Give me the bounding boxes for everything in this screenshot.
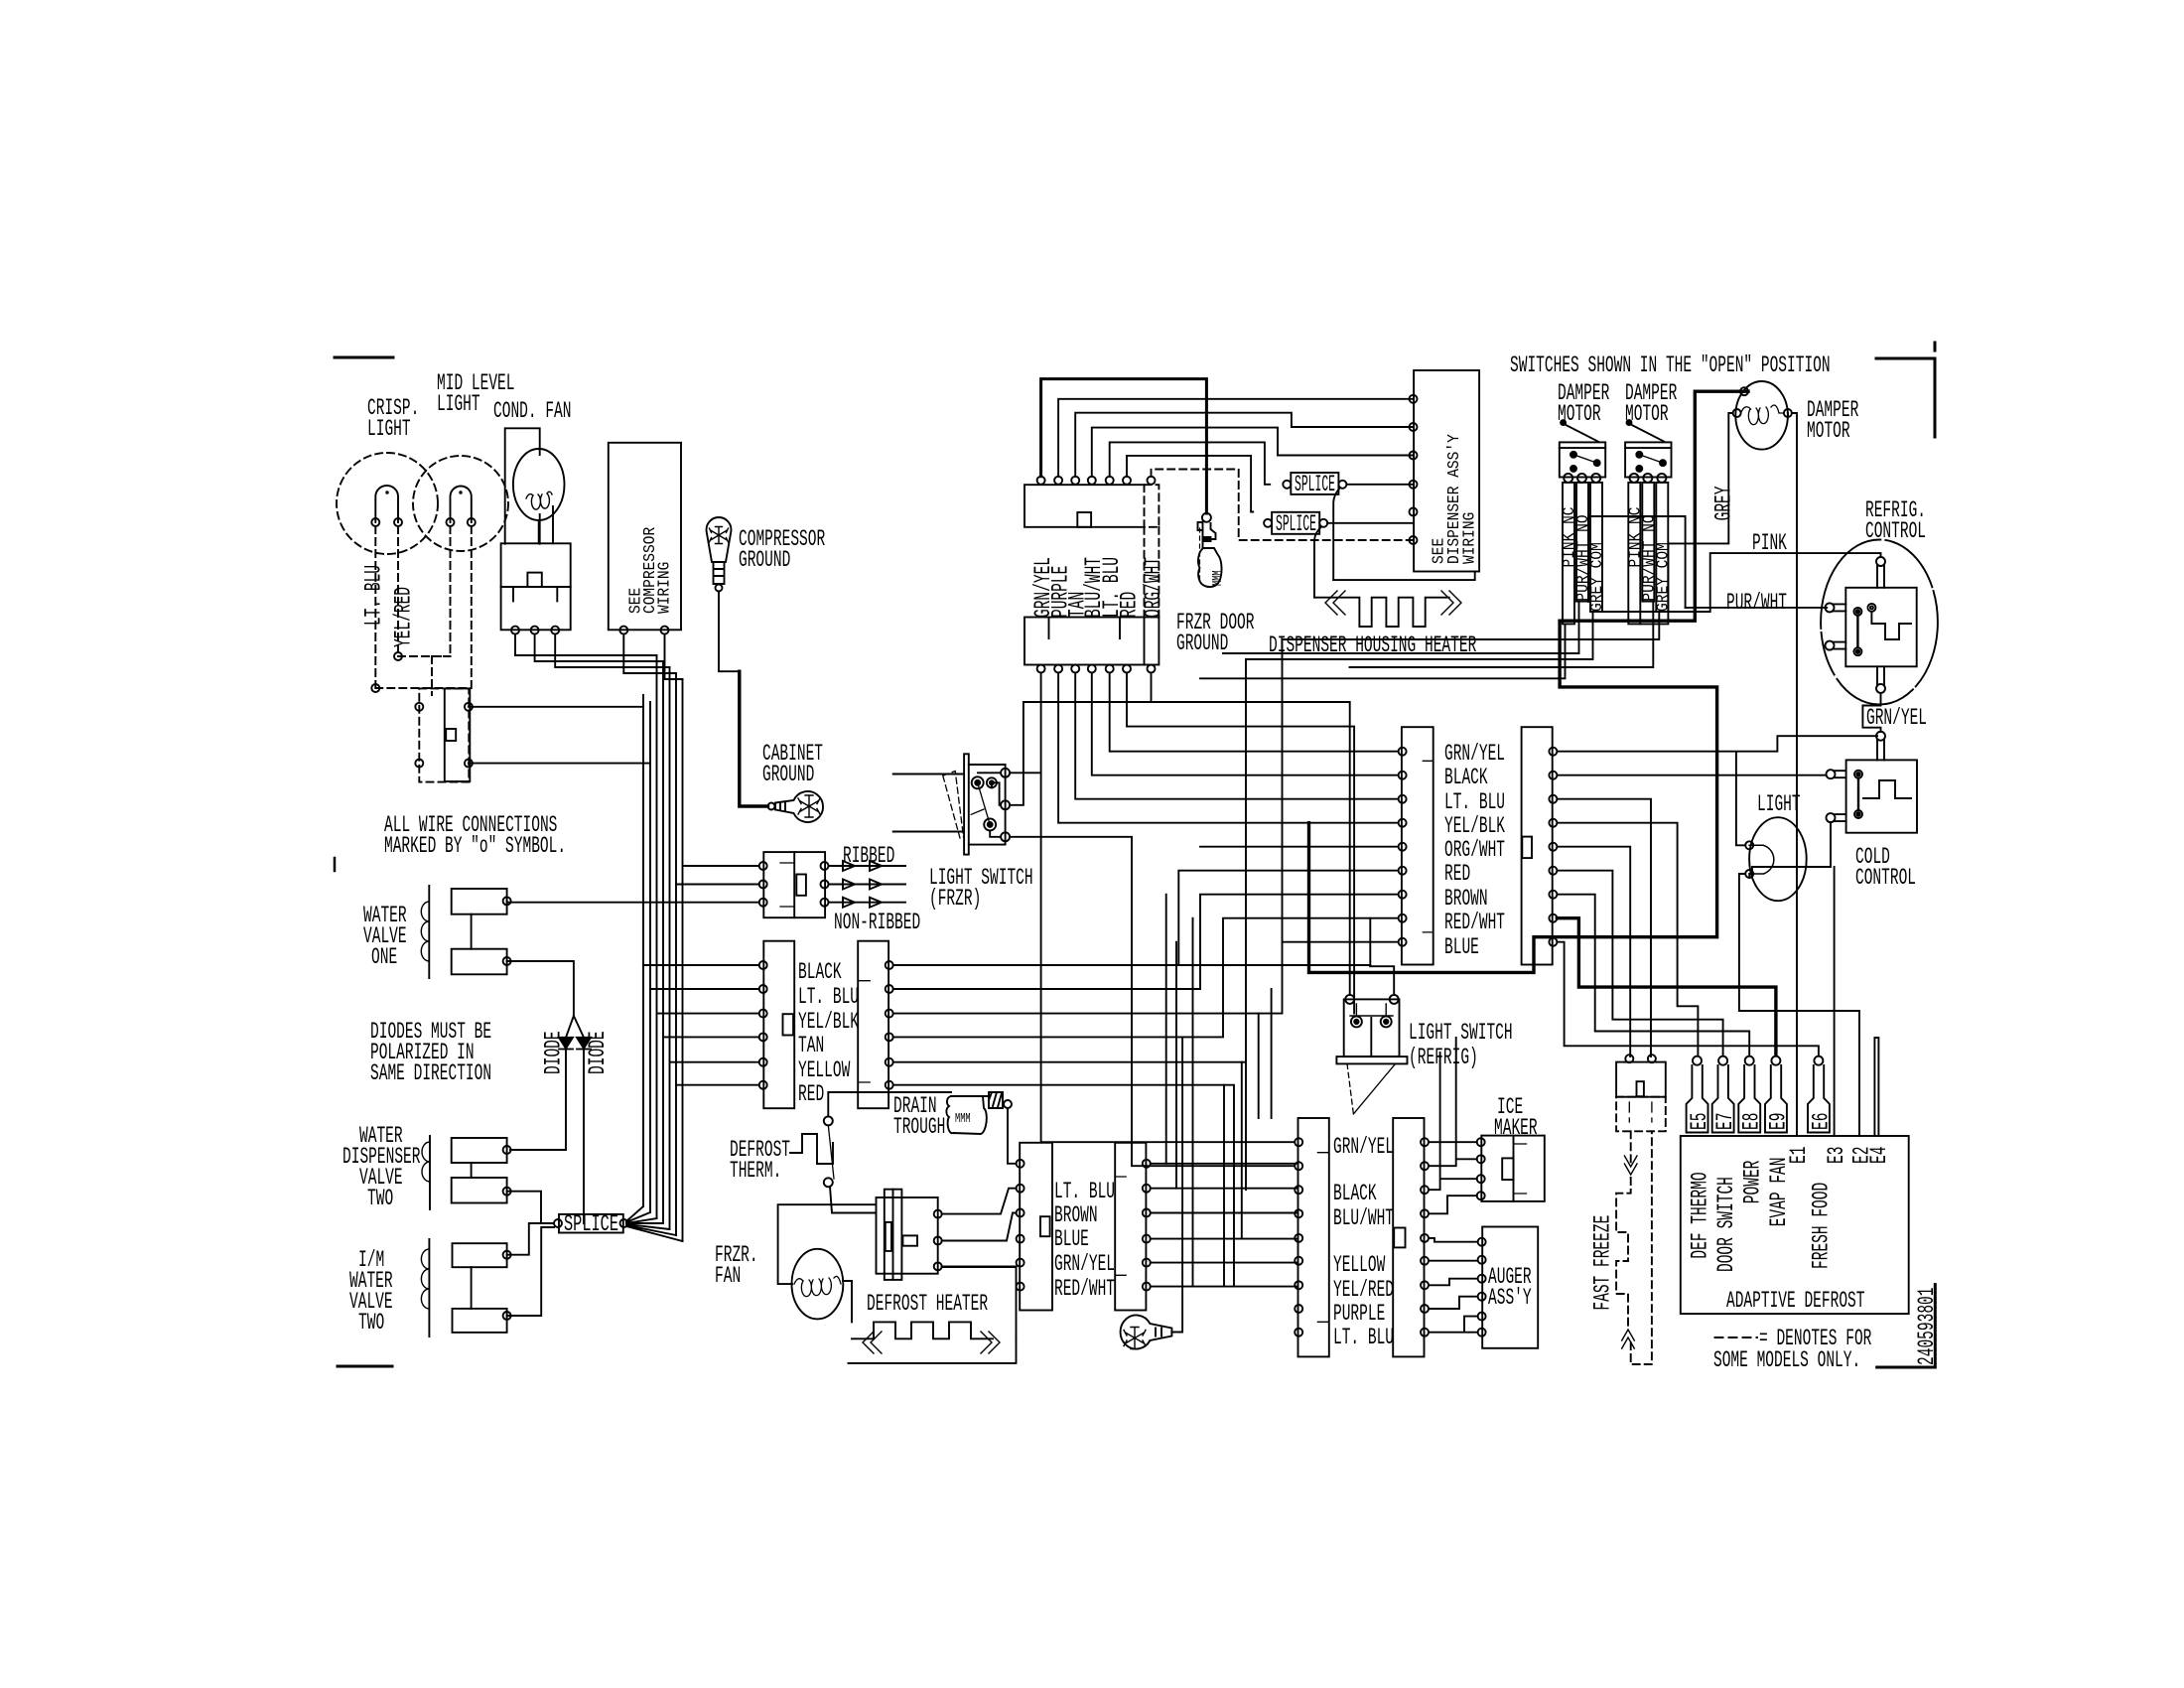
water valve one	[428, 886, 430, 978]
wire I/M valve bottom	[507, 1227, 554, 1316]
wires compressor terminals to bundle	[623, 634, 682, 679]
svg-text:E3: E3	[1824, 1147, 1849, 1164]
svg-text:POWER: POWER	[1740, 1160, 1766, 1203]
pin column PINK NC 2	[1628, 483, 1640, 625]
drain trough symbol	[951, 1092, 1003, 1108]
svg-text:BLUE: BLUE	[1054, 1226, 1089, 1252]
svg-text:BROWN: BROWN	[1054, 1202, 1098, 1228]
water dispenser valve two	[429, 1136, 431, 1209]
drain connector pair left box	[1020, 1143, 1052, 1311]
svg-text:LT. BLU: LT. BLU	[798, 984, 859, 1010]
wire 6pin t4 to 9pin row8	[893, 918, 1399, 1038]
drain connector pair right box	[1115, 1143, 1146, 1311]
wire PINK vertical	[1788, 413, 1797, 1136]
terminals mid lamp	[447, 518, 455, 526]
wire LT. BLU dashed	[374, 526, 376, 688]
spade terminal E8	[1738, 1065, 1760, 1133]
svg-text:MARKED BY "o" SYMBOL.: MARKED BY "o" SYMBOL.	[384, 833, 566, 859]
wire damper col3	[1246, 612, 1593, 1062]
terminals I/M valve	[503, 1251, 511, 1259]
compressor ground symbol	[707, 517, 732, 562]
terminals light switch FRZR	[1001, 769, 1010, 777]
registration mark top-left	[335, 356, 393, 359]
wire t4 to 9pin row2	[1092, 673, 1399, 775]
terminals drain connector left	[1017, 1160, 1024, 1168]
light bulb	[1749, 817, 1807, 901]
wire dispenser valve to splice	[507, 1192, 554, 1223]
wire RED to splice	[1127, 456, 1253, 512]
svg-text:YELLOW: YELLOW	[1333, 1252, 1385, 1278]
wire row9 to E6	[1557, 942, 1819, 1055]
terminals ice maker	[1477, 1138, 1485, 1146]
top connector upper box	[1024, 485, 1145, 527]
terminals compressor box	[619, 627, 627, 634]
svg-text:SWITCHES SHOWN IN THE "OPEN" P: SWITCHES SHOWN IN THE "OPEN" POSITION	[1510, 352, 1831, 378]
pin column PUR/WHT NO 2	[1642, 483, 1654, 602]
wire damper col1	[1200, 624, 1566, 678]
refrig control box	[1845, 588, 1916, 667]
svg-text:MOTOR: MOTOR	[1807, 418, 1850, 444]
splice box upper	[1291, 473, 1338, 494]
svg-text:YEL/RED: YEL/RED	[391, 587, 417, 647]
wire switch FRZR mid corridor	[1010, 702, 1350, 995]
wire mid lamp right dashed	[375, 526, 472, 688]
svg-text:ASS'Y: ASS'Y	[1488, 1285, 1532, 1311]
wire BLU/WHT to dispenser	[1092, 428, 1414, 477]
svg-text:WIRING: WIRING	[656, 562, 675, 614]
wire GRN/YEL trunk t1	[1041, 673, 1294, 1143]
bottom 9pin connector right box	[1393, 1118, 1424, 1356]
svg-text:RED/WHT: RED/WHT	[1444, 910, 1505, 935]
terminals 6pin right	[886, 961, 893, 969]
svg-text:WIRING: WIRING	[1461, 512, 1480, 564]
svg-text:YEL/BLK: YEL/BLK	[798, 1009, 859, 1035]
terminals crisp lamp	[371, 518, 379, 526]
svg-text:EVAP FAN: EVAP FAN	[1766, 1158, 1792, 1227]
wire defrost therm bottom	[830, 1187, 877, 1213]
terminals relay	[511, 627, 519, 634]
wire to switch FRZR left	[893, 774, 964, 832]
wire E2 riser	[1739, 874, 1859, 1136]
wire 6pin t5 corridor	[893, 1062, 1246, 1191]
wire I/M valve top to splice	[507, 1223, 554, 1255]
wire drain trough to connector	[1008, 1109, 1017, 1164]
light switch FRZR contacts	[972, 776, 984, 788]
right 9pin connector right box	[1522, 727, 1553, 964]
wire row2 to cold control	[1557, 774, 1826, 776]
cold control left stems	[1834, 771, 1845, 821]
wire row7 to E8	[1557, 895, 1749, 1055]
svg-text:BLACK: BLACK	[798, 959, 842, 985]
wire center riser b	[1192, 918, 1194, 1287]
note DENOTES FOR SOME MODELS ONLY	[1715, 1336, 1758, 1338]
frzr door ground symbol	[1202, 513, 1211, 522]
svg-text:MMM: MMM	[1210, 570, 1226, 586]
light switch FRZR wedge dashed	[943, 772, 964, 839]
wire valve one top long	[507, 901, 759, 902]
svg-text:ONE: ONE	[371, 944, 397, 970]
wire row3 to fast freeze	[1557, 799, 1651, 1056]
refrig control left stems	[1833, 604, 1845, 648]
wire damper col6	[1283, 612, 1660, 942]
wire ORG/WHT dashed	[1152, 470, 1415, 541]
wire PINK to refrig control	[1797, 553, 1881, 557]
terminals auger	[1478, 1238, 1486, 1246]
wire cold control to light	[1752, 822, 1831, 874]
wire TAN to dispenser	[1075, 413, 1414, 477]
wires light switch FRZR internal	[978, 773, 1001, 837]
lamp MID LEVEL LIGHT	[413, 456, 508, 551]
diode D2	[577, 1038, 591, 1049]
svg-text:E4: E4	[1866, 1147, 1892, 1164]
svg-text:ORG/WHT: ORG/WHT	[1444, 837, 1505, 863]
svg-text:GRN/YEL: GRN/YEL	[1054, 1251, 1115, 1277]
terminals 6pin left	[759, 961, 767, 969]
wire damper col2	[1223, 602, 1579, 653]
cond fan motor	[513, 449, 565, 520]
wire E3 riser	[1834, 867, 1836, 1136]
svg-text:BLUE: BLUE	[1444, 934, 1479, 960]
pin column PUR/WHT NO 1	[1576, 483, 1588, 602]
svg-text:DOOR SWITCH: DOOR SWITCH	[1713, 1177, 1739, 1272]
wire bundle left verticals	[643, 655, 683, 1241]
fast freeze connector dashed box	[1616, 1097, 1666, 1132]
svg-text:RED: RED	[1117, 592, 1143, 618]
svg-text:(REFRIG): (REFRIG)	[1409, 1045, 1478, 1070]
wires bundle into left connector	[643, 965, 759, 1085]
svg-text:MAKER: MAKER	[1494, 1115, 1538, 1141]
wire diode D1 to dispenser valve	[510, 1051, 566, 1150]
terminals heater assembly	[934, 1210, 942, 1218]
defrost heater element	[852, 1322, 993, 1338]
wire damper col5	[1350, 602, 1654, 667]
wire t5 to 9pin row1	[1110, 673, 1399, 752]
terminals damper switch 1	[1564, 474, 1572, 483]
svg-text:GREY COM: GREY COM	[1588, 542, 1607, 612]
box SEE COMPRESSOR WIRING	[609, 443, 681, 631]
svg-text:RED: RED	[1444, 861, 1470, 887]
wire 6pin t6 corridor	[893, 1085, 1234, 1286]
wire frzr fan left	[778, 1204, 877, 1284]
wire switch refrig riser 2	[1370, 918, 1394, 995]
wires crisp switch to bundle	[469, 707, 650, 764]
terminals top connector lower	[1037, 665, 1045, 673]
pin column PINK NC 1	[1563, 483, 1574, 625]
wire PURPLE to dispenser	[1058, 399, 1414, 477]
cold control cam profile	[1863, 780, 1911, 798]
svg-text:DEFROST HEATER: DEFROST HEATER	[867, 1291, 988, 1317]
wire t6 corridor	[1127, 673, 1354, 1014]
cold control contacts	[1854, 771, 1862, 778]
ice maker box	[1481, 1136, 1545, 1201]
registration mark bottom-left	[338, 1365, 392, 1368]
wire splice lower to heater lead	[1314, 527, 1321, 598]
wires bundle to ribbed connector	[676, 866, 759, 885]
terminals bottom 9pin left box	[1295, 1138, 1302, 1146]
connector box 6pin right	[858, 941, 888, 1108]
svg-text:LIGHT SWITCH: LIGHT SWITCH	[1409, 1020, 1513, 1046]
svg-text:SPLICE: SPLICE	[1276, 511, 1316, 537]
wire evap ground up	[1171, 1038, 1182, 1333]
svg-text:LT. BLU: LT. BLU	[361, 565, 387, 626]
svg-text:TROUGH: TROUGH	[893, 1114, 945, 1140]
damper motor	[1735, 381, 1788, 450]
svg-text:DIODE: DIODE	[541, 1031, 567, 1074]
wire dashed into switch	[432, 656, 451, 695]
terminals crisp switch	[415, 703, 423, 711]
wires heater assembly to drain connector	[942, 1189, 1017, 1214]
svg-text:DEF THERMO: DEF THERMO	[1688, 1172, 1713, 1258]
cabinet ground symbol	[775, 791, 823, 822]
wires relay terminals to bundle	[515, 634, 670, 667]
wire valve one to diodes	[507, 961, 584, 1038]
svg-text:GREY COM: GREY COM	[1654, 542, 1673, 612]
spade terminal E9	[1765, 1065, 1787, 1133]
svg-text:LT. BLU: LT. BLU	[1444, 789, 1505, 815]
wire splice lower to dispenser	[1327, 522, 1414, 524]
svg-text:LIGHT: LIGHT	[437, 391, 480, 417]
wires drain connector to bottom connector	[1151, 1164, 1297, 1287]
svg-text:240593801: 240593801	[1914, 1288, 1940, 1366]
svg-text:YELLOW: YELLOW	[798, 1057, 850, 1083]
damper switch 1	[1560, 442, 1605, 477]
svg-text:RED: RED	[798, 1081, 824, 1107]
wire row6 to E7	[1557, 871, 1722, 1055]
wire row5 to fast freeze	[1557, 847, 1630, 1056]
svg-text:E8: E8	[1739, 1113, 1765, 1130]
svg-text:RIBBED: RIBBED	[843, 843, 894, 869]
svg-text:SPLICE: SPLICE	[564, 1211, 618, 1237]
wire 6pin t2 to 9pin row7	[893, 895, 1399, 989]
wire center riser c	[1175, 942, 1177, 1189]
svg-text:DIODE: DIODE	[585, 1031, 611, 1074]
refrig control cam profile	[1871, 612, 1911, 639]
svg-text:FAN: FAN	[715, 1263, 741, 1289]
refrig control top stem	[1877, 565, 1884, 588]
auger assembly box	[1482, 1227, 1538, 1348]
wire splice upper to dispenser	[1346, 484, 1414, 486]
light switch (crisp/mid) dashed body	[419, 688, 469, 781]
ribbed connector box	[763, 852, 825, 917]
wires bottom connector to auger	[1429, 1238, 1478, 1242]
registration tick left	[334, 858, 337, 871]
svg-text:(FRZR): (FRZR)	[929, 886, 981, 912]
terminals dispenser valve two	[503, 1146, 511, 1154]
svg-text:E7: E7	[1712, 1113, 1738, 1130]
junction node	[371, 684, 379, 692]
svg-text:GREY: GREY	[1711, 486, 1737, 520]
wire GREY	[1640, 413, 1732, 624]
wire t3 to 9pin row3	[1075, 673, 1398, 799]
terminals ribbed connector	[759, 862, 767, 870]
lamp CRISP LIGHT	[337, 453, 438, 554]
light switch FRZR plate	[964, 754, 969, 854]
wire switch FRZR top link	[1010, 772, 1041, 774]
svg-text:YEL/BLK: YEL/BLK	[1444, 813, 1505, 839]
wire E4 riser	[1874, 1038, 1878, 1136]
spade terminal E6	[1808, 1065, 1830, 1133]
terminals drain connector right	[1143, 1160, 1151, 1168]
splice box left	[559, 1214, 623, 1233]
damper switch 2	[1625, 442, 1671, 477]
wire PUR/WHT riser	[1588, 516, 1686, 608]
wire ORG/WHT row5 feed	[1200, 846, 1399, 848]
svg-text:LT. BLU: LT. BLU	[1333, 1325, 1394, 1350]
wire frzr fan right	[843, 1281, 852, 1322]
light switch REFRIG	[1344, 999, 1400, 1056]
pin column GREY COM 1	[1590, 483, 1602, 612]
wire thick main	[1309, 391, 1749, 972]
cold control box	[1846, 760, 1917, 832]
connector box 6pin left	[763, 941, 794, 1108]
spade terminal E7	[1712, 1065, 1734, 1133]
right 9pin connector left box	[1402, 727, 1433, 964]
svg-text:BLACK: BLACK	[1444, 765, 1488, 790]
svg-text:GRN/YEL: GRN/YEL	[1333, 1134, 1394, 1160]
svg-text:SOME MODELS ONLY.: SOME MODELS ONLY.	[1713, 1347, 1860, 1373]
terminals damper motor	[1740, 387, 1748, 395]
svg-text:PURPLE: PURPLE	[1333, 1301, 1385, 1327]
wire GRN/YEL refrig to cold control	[1862, 693, 1880, 732]
wire PINK horizontal	[1602, 553, 1797, 612]
terminals bottom 9pin right box	[1421, 1138, 1429, 1146]
dispenser housing heater	[1333, 572, 1475, 581]
svg-text:FAST FREEZE: FAST FREEZE	[1590, 1215, 1616, 1311]
wire switch FRZR bottom corridor	[1010, 837, 1294, 1166]
wire 6pin t1 to 9pin row6	[893, 871, 1399, 967]
svg-text:E9: E9	[1766, 1113, 1792, 1130]
svg-text:SPLICE: SPLICE	[1295, 472, 1335, 497]
bottom 9pin connector left box	[1298, 1118, 1329, 1356]
defrost thermostat	[790, 1134, 833, 1164]
svg-text:BROWN: BROWN	[1444, 886, 1488, 912]
svg-text:LIGHT: LIGHT	[1757, 791, 1801, 817]
wire row4 to E5	[1557, 823, 1698, 1055]
evap fan ground symbol	[1121, 1316, 1172, 1349]
I/M water valve two	[428, 1239, 430, 1336]
svg-text:GRN/YEL: GRN/YEL	[1444, 741, 1505, 767]
wire 6pin t3 to 9pin row9	[893, 942, 1399, 1014]
pin column GREY COM 2	[1656, 483, 1668, 612]
box SEE DISPENSER ASS'Y WIRING	[1414, 370, 1479, 572]
wire diode D2 down	[583, 1051, 585, 1223]
svg-text:GROUND: GROUND	[762, 762, 814, 787]
defrost heater cutout assembly	[877, 1197, 938, 1274]
wire GRN/YEL row1 to light and refrig	[1557, 736, 1877, 845]
freezer fan motor	[792, 1249, 844, 1320]
wire row8 to E9 thick	[1557, 918, 1776, 1055]
svg-text:TAN: TAN	[798, 1033, 824, 1058]
terminals dispenser box	[1410, 395, 1418, 403]
svg-text:TWO: TWO	[367, 1186, 393, 1211]
ribbed arrows	[829, 861, 906, 871]
svg-text:BLU/WHT: BLU/WHT	[1333, 1205, 1394, 1231]
svg-text:E1: E1	[1786, 1147, 1812, 1164]
wire PUR/WHT horizontal	[1686, 607, 1828, 609]
terminals water valve one	[503, 897, 511, 905]
wire fast freeze dashed loop	[1616, 1131, 1652, 1364]
terminals light	[1745, 841, 1753, 849]
dashed column ORG/WHT	[1145, 527, 1160, 618]
svg-text:E5: E5	[1687, 1113, 1712, 1130]
top connector lower box	[1024, 618, 1159, 665]
wire center riser a	[1165, 895, 1167, 1164]
refrig control ellipse	[1821, 540, 1938, 705]
splice box lower	[1272, 512, 1319, 534]
wire mid lamp left dashed	[398, 526, 451, 656]
wire compressor ground to cabinet ground	[719, 592, 740, 672]
svg-text:PINK: PINK	[1752, 530, 1787, 556]
wire bottom risers	[1224, 989, 1272, 1285]
svg-text:GROUND: GROUND	[1176, 631, 1228, 656]
refrig control contacts	[1853, 608, 1861, 616]
terminals right 9pin left box	[1399, 748, 1407, 756]
svg-text:PUR/WHT: PUR/WHT	[1726, 590, 1787, 616]
svg-text:DISPENSER HOUSING HEATER: DISPENSER HOUSING HEATER	[1269, 633, 1476, 658]
terminals damper switch 2	[1630, 474, 1639, 483]
svg-text:GROUND: GROUND	[739, 547, 790, 573]
spade terminal E5	[1687, 1065, 1708, 1133]
registration mark top-right	[1876, 343, 1935, 437]
svg-text:CONTROL: CONTROL	[1855, 865, 1916, 891]
registration mark bottom-right	[1877, 1285, 1936, 1367]
svg-text:BLACK: BLACK	[1333, 1181, 1377, 1206]
cond fan duct	[505, 428, 540, 543]
splice right fan wires	[626, 1206, 683, 1241]
refrig control bottom stem	[1877, 666, 1884, 685]
svg-text:THERM.: THERM.	[730, 1158, 781, 1184]
svg-text:NON-RIBBED: NON-RIBBED	[834, 910, 920, 935]
wire GRN/YEL to door ground	[1041, 379, 1207, 513]
svg-text:YEL/RED: YEL/RED	[1333, 1277, 1394, 1303]
wire LT. BLU to splice	[1110, 442, 1271, 484]
terminals splice left	[554, 1219, 562, 1227]
terminals top connector upper	[1037, 477, 1045, 485]
wire splice upper to heater lead	[1333, 488, 1340, 580]
svg-text:LT. BLU: LT. BLU	[1054, 1179, 1115, 1204]
junction node	[394, 652, 402, 660]
fast freeze connector solid box	[1616, 1062, 1666, 1097]
svg-text:COND. FAN: COND. FAN	[493, 398, 572, 424]
adaptive defrost board	[1681, 1136, 1909, 1314]
wire t2 to 9pin row4	[1058, 673, 1399, 823]
diode D1	[559, 1038, 573, 1049]
svg-text:SAME DIRECTION: SAME DIRECTION	[370, 1060, 491, 1086]
wire YEL/RED dashed	[397, 526, 399, 656]
svg-text:MMM: MMM	[955, 1111, 971, 1127]
wire t7 corridor	[1151, 673, 1153, 703]
svg-text:TWO: TWO	[358, 1310, 384, 1336]
svg-text:FRESH FOOD: FRESH FOOD	[1809, 1183, 1835, 1269]
cond fan relay box	[501, 543, 571, 630]
light switch (crisp/mid) solid body	[445, 688, 471, 781]
wire defrost therm top	[828, 1092, 951, 1116]
svg-text:E6: E6	[1809, 1113, 1835, 1130]
svg-text:LIGHT: LIGHT	[367, 416, 411, 442]
wires bottom connector to ice maker	[1429, 1141, 1477, 1143]
svg-text:ADAPTIVE DEFROST: ADAPTIVE DEFROST	[1726, 1288, 1865, 1314]
terminals right 9pin right box	[1549, 748, 1557, 756]
svg-text:RED/WHT: RED/WHT	[1054, 1276, 1115, 1302]
